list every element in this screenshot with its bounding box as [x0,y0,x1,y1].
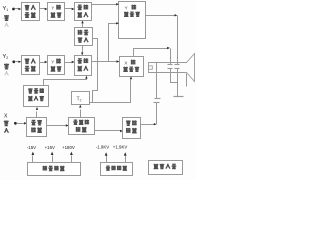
wire sweep circuit to intensify circuit [95,130,121,132]
terminal bar (plate return) [174,96,184,98]
CRT deflection plate pair 1 [168,64,173,66]
capacitor in grid lead [154,102,160,104]
svg-text:-1.9KV: -1.9KV [96,145,109,150]
CRT grid electrode [156,63,158,73]
label Y2 input (ru, faint) [5,71,9,75]
wire attenuator2 to preamp2 [65,62,73,64]
wire Y1 to input coupling [15,8,19,10]
wire Y-amp output to vertical plates [146,15,175,17]
wire T2 sweep output to X-amp [90,80,131,103]
wire switch up into preamp1 [82,24,84,28]
box sweep circuit [69,118,95,135]
box input coupling 2 [22,56,40,75]
box trigger circuit [27,118,47,137]
wire coupling1 to attenuator1 [40,8,46,10]
CRT envelope neck [149,63,187,73]
wire anode stub below funnel [186,74,188,87]
box high voltage power supply [101,163,133,176]
wire electronic switch to sweep node [93,39,98,103]
wire trigger circuit up to internal trigger amp [36,112,38,118]
CRT cathode [149,66,153,69]
box preamplifier 2 [75,56,92,76]
wire sweep circuit up to T2 [80,110,82,118]
box calibration signal [149,161,183,175]
box T2 sweep gate [72,92,90,105]
wire preamp1 to Y-amp input 1 [92,4,117,6]
svg-text:Y: Y [51,6,54,11]
svg-text:+180V: +180V [62,145,75,150]
CRT funnel and screen [187,54,195,82]
svg-text:Y: Y [51,59,54,64]
svg-text:X: X [4,114,8,120]
wire into X-amp input [117,60,120,62]
wire intensify circuit to CRT grid [141,124,155,126]
wire preamp2 output [92,61,117,63]
wire coupling2 to attenuator2 [40,62,46,64]
box input coupling 1 [22,3,40,21]
label X input (ru) [4,128,8,133]
box X-axis amplifier [120,57,144,77]
label Y1 input (ru, faint) [5,23,9,27]
wire X input to trigger circuit [17,123,25,125]
wire X-amp output to horizontal plates [134,49,168,57]
wire trigger circuit to sweep circuit [47,125,67,127]
wire Y2 to input coupling 2 [16,61,19,63]
svg-text:+15V: +15V [45,145,55,150]
box Y attenuator 1 [48,3,65,21]
box preamplifier 1 [75,3,92,21]
label Y2 input (shu) [4,64,9,69]
wire attenuator1 to preamp1 [65,8,73,10]
wire switch down into preamp2 [82,46,84,53]
box low voltage power supply [28,163,81,176]
CRT deflection plate pair 2 [175,64,180,66]
label Y1 input (shu) [4,15,9,20]
wire LV supply output arrows [32,156,34,163]
box electronic switch [75,28,93,46]
box intensify circuit [123,118,141,139]
svg-text:-15V: -15V [27,145,36,150]
label X input (shu) [4,121,9,126]
wire HV supply output arrows [106,156,108,163]
wire plate returns to common terminal [171,69,178,97]
box Y-axis amplifier [119,2,146,39]
wire internal trigger amp to preamp2 [44,79,87,86]
box internal trigger amplifier [24,86,49,107]
svg-text:+1.9KV: +1.9KV [113,145,128,150]
box Y attenuator 2 [48,56,65,75]
wire branch up to Y-amp input 2 [109,24,117,62]
